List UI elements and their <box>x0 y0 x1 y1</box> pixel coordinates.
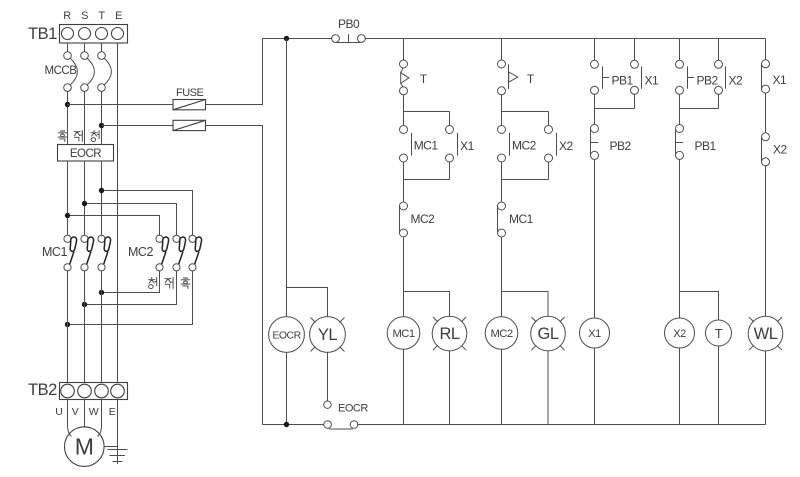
parallel merge bar branch4 <box>680 108 719 110</box>
wire branch1 to MC1 coil <box>403 237 405 317</box>
contact X2 NO branch2 parallel <box>545 112 557 180</box>
svg-text:M: M <box>75 434 94 460</box>
label phase color heuk top <box>58 131 67 142</box>
label phase color jeok bottom <box>165 278 173 289</box>
wire EOCR coil branch upper <box>286 39 288 317</box>
wire EOCR coil lower <box>286 352 288 424</box>
branch3 drop from rail <box>594 39 596 61</box>
timed contact T NO branch2 <box>498 60 518 95</box>
label phase color heuk bottom <box>181 278 190 289</box>
contact X2 NO branch4 parallel <box>715 39 726 109</box>
wire fuse2 to bottom rail <box>206 126 263 425</box>
parallel split bar branch2 <box>502 111 549 113</box>
svg-text:MC1: MC1 <box>42 245 67 259</box>
bottom rail right segment <box>358 424 766 426</box>
coil MC1 <box>387 317 420 350</box>
wire TB1-S to MCCB <box>84 43 86 52</box>
svg-text:TB2: TB2 <box>28 381 57 399</box>
wire X1 coil to bottom rail <box>594 348 596 425</box>
svg-text:PB1: PB1 <box>695 139 717 153</box>
EOCR trip contact on bottom rail <box>324 421 358 429</box>
wire U to motor <box>68 400 72 437</box>
pushbutton PB1 NC branch4 <box>676 125 684 160</box>
node T tap junction <box>99 188 104 193</box>
node S tap junction <box>82 201 87 206</box>
svg-text:V: V <box>72 406 79 418</box>
wire PB2 to merge <box>679 94 681 108</box>
wire W to motor <box>98 400 102 437</box>
svg-text:MC1: MC1 <box>392 328 414 340</box>
wire branch3 to PB2 NC <box>594 109 596 125</box>
wire between X1 and X2 branch5 <box>765 93 767 133</box>
contact X1 NO branch3 parallel <box>631 39 642 109</box>
contactor MC2 pole a <box>156 235 169 271</box>
svg-text:X1: X1 <box>773 73 788 87</box>
contact MC2 NC branch1 <box>400 202 408 237</box>
svg-text:PB2: PB2 <box>610 139 632 153</box>
wire branch2 to MC2 coil <box>501 237 503 317</box>
wire GL branch tee <box>502 292 549 317</box>
branch2 drop from rail <box>501 39 503 61</box>
wire S line MC1 to TB2 <box>84 271 86 382</box>
svg-text:X1: X1 <box>645 74 660 88</box>
svg-text:WL: WL <box>754 325 778 343</box>
svg-text:X1: X1 <box>588 328 601 340</box>
wire branch1 to split <box>403 95 405 112</box>
wire MC2 coil to bottom rail <box>501 349 503 424</box>
contact X1 NC branch5 <box>762 60 770 93</box>
svg-text:T: T <box>527 74 534 86</box>
wire RL branch tee <box>404 292 450 317</box>
svg-text:MC1: MC1 <box>509 212 534 226</box>
pushbutton PB0 NC <box>332 34 366 42</box>
contact MC1 NC branch2 <box>498 202 506 237</box>
coil EOCR <box>269 317 305 353</box>
wire S line MCCB to MC1 <box>84 91 86 235</box>
node top rail EOCR branch <box>284 36 289 41</box>
wire fuse1 to control rail <box>206 39 263 105</box>
wire T coil tee <box>680 292 719 321</box>
svg-text:PB0: PB0 <box>338 17 360 31</box>
node R tap junction <box>65 213 70 218</box>
svg-text:PB2: PB2 <box>697 74 719 88</box>
svg-text:GL: GL <box>537 325 558 343</box>
wire E down to earth <box>117 400 119 465</box>
svg-text:EOCR: EOCR <box>338 403 368 415</box>
svg-text:X1: X1 <box>460 139 475 153</box>
wire MC2 pole b to S line <box>85 271 177 305</box>
svg-text:TB1: TB1 <box>28 25 57 43</box>
svg-text:EOCR: EOCR <box>272 330 301 342</box>
svg-text:W: W <box>89 406 99 418</box>
timed contact T NC branch1 <box>400 60 409 95</box>
fuse F2 <box>173 120 206 130</box>
lamp RL <box>432 316 467 351</box>
svg-text:S: S <box>81 10 88 22</box>
contactor MC1 pole R <box>64 235 77 271</box>
coil X1 <box>580 318 610 348</box>
contact MC1 NO branch1 <box>400 112 412 180</box>
svg-text:PB1: PB1 <box>612 74 634 88</box>
node R-fuse1 junction <box>65 102 70 107</box>
wire branch2 to split <box>501 95 503 112</box>
svg-text:E: E <box>109 406 116 418</box>
wire E line TB1 to TB2 <box>117 43 119 382</box>
bottom rail left segment <box>263 424 324 426</box>
wire PB1 to merge <box>594 94 596 108</box>
wire branch4 to X2 coil <box>679 159 681 318</box>
wire MC1 coil to bottom rail <box>403 349 405 424</box>
pushbutton PB1 NO branch3 <box>591 60 610 94</box>
node T-fuse2 junction <box>99 123 104 128</box>
coil T timer <box>706 320 732 346</box>
contactor MC1 pole S <box>81 235 94 271</box>
contactor MC2 pole c <box>189 235 202 271</box>
node T lower junction <box>99 290 104 295</box>
wire branch4 to PB1 NC <box>679 109 681 125</box>
label phase color cheong top <box>91 131 99 142</box>
fuse F1 <box>173 100 206 110</box>
lamp YL <box>310 317 346 353</box>
pushbutton PB2 NO branch4 <box>676 60 695 94</box>
wire MC2 pole c to R line <box>68 271 193 325</box>
contactor MC2 pole b <box>173 235 186 271</box>
lamp GL <box>531 316 566 351</box>
svg-text:X2: X2 <box>673 328 686 340</box>
wire T coil to bottom rail <box>718 346 720 425</box>
motor M <box>65 427 105 467</box>
wire motor to earth <box>104 446 118 448</box>
svg-text:EOCR: EOCR <box>70 148 101 160</box>
EOCR trip terminal circle <box>324 401 331 408</box>
branch4 drop from rail <box>679 39 681 61</box>
svg-text:MC2: MC2 <box>128 245 153 259</box>
terminal labels U V W E <box>55 406 115 418</box>
wire YL branch <box>287 288 328 317</box>
coil MC2 <box>485 317 518 350</box>
svg-text:X2: X2 <box>559 139 574 153</box>
svg-text:R: R <box>63 10 71 22</box>
branch1 drop from rail <box>403 39 405 61</box>
wire R line MC1 to TB2 <box>67 271 69 382</box>
wire TB1-T to MCCB <box>101 43 103 52</box>
top rail right segment <box>365 38 765 40</box>
svg-text:X2: X2 <box>729 74 744 88</box>
label phase color cheong bottom <box>149 278 157 289</box>
wire YL to EOCR contact <box>327 352 329 401</box>
wire tap S to MC2 middle pole <box>85 204 177 236</box>
wire tap R to MC2 left pole <box>68 216 160 236</box>
svg-text:MC2: MC2 <box>490 328 512 340</box>
contactor MC1 pole T <box>98 235 111 271</box>
node S lower junction <box>82 302 87 307</box>
coil X2 <box>665 318 695 348</box>
node bottom rail EOCR coil junction <box>284 422 289 427</box>
top rail left segment <box>263 38 332 40</box>
svg-text:MCCB: MCCB <box>45 65 78 77</box>
lamp WL <box>748 316 783 351</box>
wire T line MC1 to TB2 <box>101 271 103 382</box>
wire R line MCCB to MC1 <box>67 91 69 235</box>
wire branch1 to MC2 NC <box>403 180 405 203</box>
contact MC2 NO branch2 <box>498 112 510 180</box>
wire TB1-R to MCCB <box>67 43 69 52</box>
terminal block TB1 <box>60 25 128 44</box>
breaker MCCB pole S <box>81 52 95 92</box>
svg-text:X2: X2 <box>773 143 788 157</box>
wire branch3 to X1 coil <box>594 159 596 318</box>
svg-text:YL: YL <box>318 326 338 344</box>
contact X1 NO branch1 parallel <box>446 112 458 180</box>
branch5 drop from rail <box>765 39 767 60</box>
breaker MCCB pole R <box>64 52 78 92</box>
parallel merge bar branch3 <box>595 108 635 110</box>
phase labels R S T E <box>63 10 122 22</box>
wire tap T to MC2 right pole <box>102 191 193 236</box>
wire fuse2 line <box>102 125 174 127</box>
wire RL to bottom rail <box>449 351 451 425</box>
parallel merge bar branch1 <box>404 179 450 181</box>
wire branch2 to MC1 NC <box>501 180 503 203</box>
wire X2 coil to bottom rail <box>679 348 681 425</box>
svg-text:T: T <box>98 10 105 22</box>
svg-text:FUSE: FUSE <box>176 87 204 99</box>
breaker MCCB pole T <box>98 52 112 92</box>
parallel split bar branch1 <box>404 111 450 113</box>
ground symbol <box>108 450 128 462</box>
svg-text:MC1: MC1 <box>414 139 439 153</box>
label phase color jeok top <box>74 131 82 142</box>
contact X2 NC branch5 <box>762 133 770 166</box>
wire GL to bottom rail <box>547 351 549 425</box>
svg-text:E: E <box>115 10 122 22</box>
wire fuse1 line <box>68 104 174 106</box>
EOCR box <box>58 145 114 162</box>
svg-text:T: T <box>420 74 427 86</box>
svg-text:U: U <box>55 406 62 418</box>
wire branch5 to WL <box>765 166 767 316</box>
wire WL to bottom rail <box>765 351 767 425</box>
svg-text:T: T <box>715 327 723 341</box>
svg-text:MC2: MC2 <box>411 212 436 226</box>
svg-text:MC2: MC2 <box>512 139 537 153</box>
pushbutton PB2 NC branch3 <box>591 125 599 160</box>
terminal block TB2 <box>60 383 128 400</box>
wire T line MCCB to MC1 <box>101 91 103 235</box>
wire MC2 pole a to T line <box>102 271 160 293</box>
parallel merge bar branch2 <box>502 179 549 181</box>
node R lower junction <box>65 322 70 327</box>
svg-text:RL: RL <box>439 325 459 343</box>
wire V to motor <box>84 400 86 428</box>
